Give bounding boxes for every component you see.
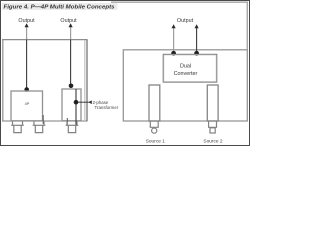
svg-text:Converter: Converter — [174, 71, 198, 77]
svg-text:Dual: Dual — [180, 63, 191, 69]
svg-text:Figure 4. P—4P Multi Mobile Co: Figure 4. P—4P Multi Mobile Concepts — [4, 5, 115, 11]
svg-text:Transformer: Transformer — [95, 105, 119, 110]
svg-text:Output: Output — [60, 18, 77, 24]
svg-text:Output: Output — [18, 18, 35, 24]
svg-text:Output: Output — [177, 18, 194, 24]
svg-text:Source 1: Source 1 — [146, 138, 166, 144]
svg-text:4P: 4P — [25, 102, 30, 106]
svg-text:Source 2: Source 2 — [203, 138, 223, 144]
